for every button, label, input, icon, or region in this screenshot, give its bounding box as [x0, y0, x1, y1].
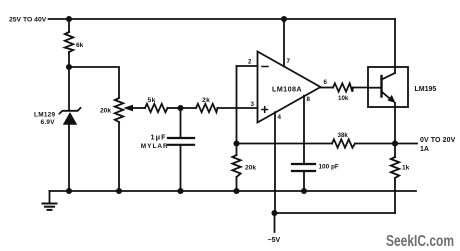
svg-text:5k: 5k — [148, 97, 156, 104]
node junction output — [392, 140, 398, 146]
svg-text:MYLAR: MYLAR — [141, 143, 169, 150]
svg-text:3: 3 — [251, 101, 255, 108]
svg-text:2: 2 — [248, 59, 252, 66]
node junction 5k / 2k / 1uF — [177, 105, 183, 111]
transistor Q1 LM195 — [368, 67, 408, 107]
svg-text:2k: 2k — [202, 97, 210, 104]
resistor 10k — [333, 83, 368, 91]
svg-text:8: 8 — [307, 96, 311, 103]
resistor 20k (divider) — [232, 144, 240, 192]
svg-text:LM129: LM129 — [34, 112, 56, 119]
svg-text:7: 7 — [287, 58, 291, 65]
svg-text:6: 6 — [324, 79, 328, 86]
node junction 6k / LM129 / pot wire — [66, 64, 72, 70]
op-amp U1 LM108A — [258, 52, 321, 123]
resistor 1k — [391, 144, 399, 214]
node junction -5V / pin 4 — [271, 210, 277, 216]
resistor 2k — [181, 104, 258, 112]
svg-text:6.9V: 6.9V — [41, 119, 56, 126]
wire feedback rail — [237, 143, 333, 145]
svg-text:38k: 38k — [338, 132, 349, 139]
svg-text:100 pF: 100 pF — [319, 164, 339, 171]
resistor 6k — [65, 19, 73, 67]
svg-text:20k: 20k — [100, 108, 111, 115]
wire pin 6 output — [321, 87, 334, 89]
wire 38k to output node — [355, 143, 395, 145]
wire -5V rail — [275, 212, 396, 214]
wire top supply rail — [49, 18, 396, 20]
resistor 38k — [332, 139, 355, 147]
svg-text:LM195: LM195 — [415, 86, 437, 93]
wire pin 4 V- — [274, 112, 276, 213]
wire pin 7 V+ — [283, 19, 285, 67]
svg-text:1A: 1A — [420, 146, 429, 153]
wire pin 8 to 100pF — [303, 96, 305, 164]
wire top rail right drop to collector — [394, 19, 396, 67]
svg-text:LM108A: LM108A — [272, 85, 302, 94]
wire 6k bottom to 20k pot top — [69, 67, 119, 98]
wire emitter to output node — [394, 107, 396, 144]
value label LM129 6.9V — [34, 112, 56, 127]
value label 1uF MYLAR — [141, 133, 169, 150]
svg-text:SeekIC.com: SeekIC.com — [386, 233, 454, 250]
node junction top rail / 6k — [66, 16, 72, 22]
wire output stub — [395, 143, 417, 145]
svg-text:20k: 20k — [245, 165, 256, 172]
wire feedback vertical pin2 to divider node — [236, 66, 238, 144]
node junction ground / 100pF — [301, 188, 307, 194]
svg-text:4: 4 — [278, 114, 282, 121]
svg-text:25V TO 40V: 25V TO 40V — [9, 17, 47, 24]
node junction ground / pot — [116, 188, 122, 194]
potentiometer 20k — [115, 98, 145, 191]
node junction top rail / pin 7 — [281, 16, 287, 22]
svg-text:1μF: 1μF — [151, 133, 167, 142]
node label 0V TO 20V 1A — [420, 137, 456, 153]
node junction ground / LM129 — [66, 188, 72, 194]
capacitor 100pF — [292, 164, 315, 191]
capacitor 1uF MYLAR — [168, 108, 194, 191]
node junction ground / 20k — [233, 188, 239, 194]
wire pin 2 inverting input — [237, 65, 258, 67]
node junction divider (20k/38k/pin2) — [233, 140, 239, 146]
wire -5V stub — [274, 213, 276, 232]
resistor 5k — [145, 104, 181, 112]
zener diode LM129 — [60, 67, 81, 191]
wire ground rail — [50, 190, 417, 192]
svg-text:1k: 1k — [402, 165, 410, 172]
svg-text:10k: 10k — [338, 95, 349, 102]
ground symbol — [43, 191, 57, 210]
node junction ground / 1uF — [177, 188, 183, 194]
svg-text:−5V: −5V — [268, 237, 281, 244]
svg-text:6k: 6k — [76, 42, 84, 49]
svg-text:0V TO 20V: 0V TO 20V — [420, 137, 456, 144]
